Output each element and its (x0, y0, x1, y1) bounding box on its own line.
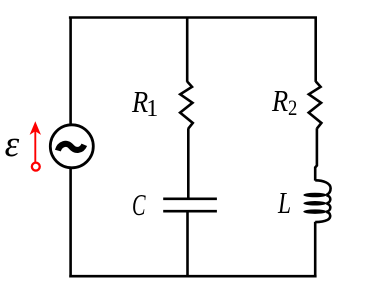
resistor R1 zigzag (180, 82, 193, 129)
label R1 subscript 1 (146, 97, 158, 121)
wire R1 to capacitor (187, 128, 190, 199)
inductor L turn 3 lens (303, 209, 326, 214)
wire left vertical lower (source to bottom corner) (69, 168, 72, 277)
wire inductor to bottom wire (314, 222, 317, 277)
inductor L arc 2-3 (326, 204, 330, 212)
AC source U1 circle (50, 125, 93, 168)
inductor L arc 1-2 (326, 195, 330, 203)
inductor L entry curve (315, 180, 330, 195)
inductor L turn 1 lens (303, 193, 326, 198)
resistor R2 zigzag (309, 82, 322, 129)
capacitor C bottom plate (163, 210, 217, 213)
wire top horizontal (69, 16, 317, 19)
inductor L exit curve (315, 212, 330, 222)
emf arrow tail ring (red) (32, 163, 40, 171)
wire middle vertical upper (top wire to R1) (186, 17, 189, 82)
capacitor C top plate (163, 197, 217, 200)
wire capacitor to bottom wire (186, 211, 189, 276)
emf arrow head (red) (30, 121, 41, 135)
label L (278, 187, 291, 218)
AC source sine tilde (58, 144, 84, 151)
label R2 (272, 85, 288, 116)
wire bottom horizontal (69, 275, 316, 278)
label C (132, 189, 146, 220)
emf polarity arrow (red) shaft (34, 130, 36, 163)
wire right vertical upper (top wire to R2) (314, 17, 317, 82)
wire R2 to inductor (with small jog) (315, 128, 317, 180)
label R2 subscript 2 (288, 97, 297, 119)
inductor L turn 2 lens (303, 201, 326, 206)
label R1 (132, 86, 148, 117)
wire left vertical upper (top corner to source) (69, 17, 72, 125)
label emf epsilon (5, 126, 20, 163)
